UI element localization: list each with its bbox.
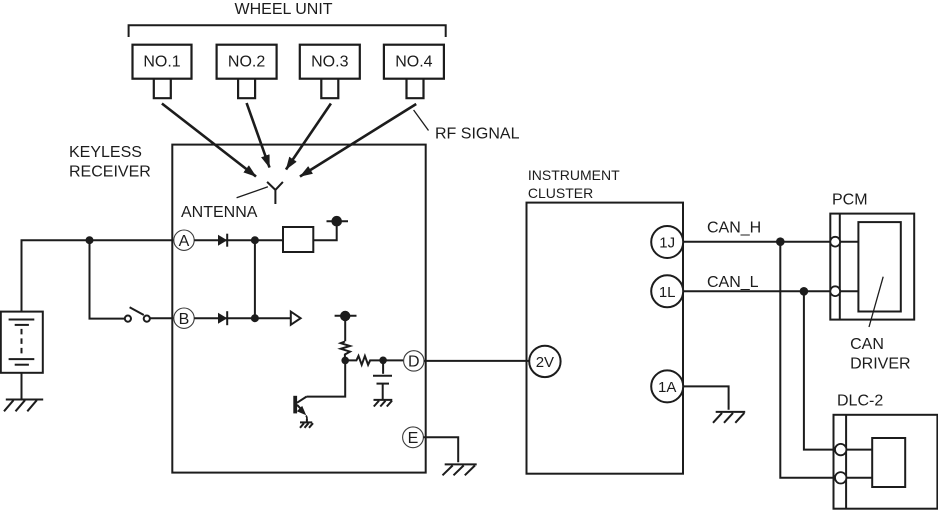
resistor R1 (vertical) xyxy=(341,342,350,361)
RF arrow from NO.1 to antenna xyxy=(162,104,256,177)
connector 1J xyxy=(651,226,683,258)
power symbol (battery feed) xyxy=(327,216,349,227)
wire component box to power xyxy=(313,226,336,241)
wire CAN_L 1L to PCM xyxy=(683,290,830,292)
wheel unit bracket xyxy=(129,25,446,37)
RF SIGNAL pointer line xyxy=(414,110,429,131)
PCM pin lead CAN_L xyxy=(840,290,858,292)
svg-text:NO.2: NO.2 xyxy=(228,54,265,71)
diode D1 xyxy=(218,234,227,247)
keyless receiver box xyxy=(172,145,425,473)
wire branch down to switch xyxy=(90,240,125,318)
junction dot at capacitor xyxy=(379,357,387,365)
node junction dot on battery wire xyxy=(86,236,94,244)
wire switch to node B xyxy=(150,317,174,319)
svg-text:WHEEL UNIT: WHEEL UNIT xyxy=(235,1,333,18)
junction dot CAN_H xyxy=(776,237,785,246)
PCM inner module (CAN driver) xyxy=(858,222,900,311)
svg-text:KEYLESS: KEYLESS xyxy=(69,144,142,161)
RF arrow from NO.4 to antenna xyxy=(300,104,416,177)
power symbol (internal supply) xyxy=(335,311,357,321)
switch xyxy=(125,307,150,321)
RF arrow from NO.2 to antenna xyxy=(247,103,270,168)
svg-text:RECEIVER: RECEIVER xyxy=(69,163,151,180)
node A xyxy=(174,230,194,250)
diode D2 xyxy=(218,311,227,325)
wheel unit NO.4 xyxy=(384,45,444,98)
svg-text:E: E xyxy=(408,430,419,447)
svg-text:B: B xyxy=(179,311,190,328)
DLC-2 pin lead upper xyxy=(846,449,872,451)
DLC-2 connector strip xyxy=(845,415,847,509)
svg-text:1J: 1J xyxy=(659,235,675,252)
svg-text:2V: 2V xyxy=(536,354,554,371)
junction dot CAN_L xyxy=(800,287,809,296)
wire link A row to B row xyxy=(254,240,256,318)
connector 1L xyxy=(651,275,683,307)
wire node A row xyxy=(194,239,283,241)
wire to transistor Q1 xyxy=(307,360,346,396)
wheel unit NO.3 xyxy=(300,45,360,98)
svg-text:CAN_H: CAN_H xyxy=(707,219,761,236)
PCM box xyxy=(830,214,914,320)
capacitor ground xyxy=(374,400,393,407)
PCM connector strip xyxy=(839,214,841,320)
PCM pin CAN_H xyxy=(830,237,840,247)
capacitor C1 xyxy=(373,360,392,400)
wire node E to ground xyxy=(423,437,458,462)
svg-text:1L: 1L xyxy=(659,284,676,301)
svg-text:CLUSTER: CLUSTER xyxy=(528,185,593,201)
node D xyxy=(404,351,424,371)
wire node B row xyxy=(194,317,291,319)
CAN driver pointer line xyxy=(869,277,883,327)
ground at 1A xyxy=(713,412,745,423)
wire battery to node A xyxy=(22,240,175,311)
svg-text:D: D xyxy=(408,354,420,371)
battery B+ xyxy=(1,312,43,373)
svg-text:PCM: PCM xyxy=(832,192,868,209)
battery ground xyxy=(4,373,43,412)
resistor R2 (horizontal) xyxy=(345,356,403,365)
wheel unit NO.2 xyxy=(217,45,277,98)
svg-text:CAN: CAN xyxy=(850,336,884,353)
wire power to resistor R1 xyxy=(344,321,346,341)
DLC-2 pin lead lower xyxy=(846,477,872,479)
connector 2V xyxy=(529,346,560,377)
ground at node E xyxy=(443,464,477,475)
wire CAN_H drop to DLC-2 xyxy=(780,242,835,478)
node B xyxy=(174,308,194,328)
antenna xyxy=(267,182,283,204)
buffer amplifier xyxy=(291,312,301,325)
svg-text:ANTENNA: ANTENNA xyxy=(181,204,258,221)
RF arrow from NO.3 to antenna xyxy=(286,104,331,170)
DLC-2 pin lower (CAN_H) xyxy=(835,472,846,483)
PCM pin CAN_L xyxy=(830,286,840,296)
svg-text:NO.1: NO.1 xyxy=(143,54,180,71)
svg-text:NO.4: NO.4 xyxy=(395,54,432,71)
node E xyxy=(403,427,424,448)
svg-text:A: A xyxy=(179,233,190,250)
junction dot B row xyxy=(251,314,259,322)
PCM pin lead CAN_H xyxy=(840,241,858,243)
wire CAN_L drop to DLC-2 xyxy=(804,291,835,449)
DLC-2 inner module xyxy=(872,438,905,487)
wire node D to instrument cluster 2V xyxy=(424,360,529,362)
svg-text:DRIVER: DRIVER xyxy=(850,355,910,372)
svg-text:DLC-2: DLC-2 xyxy=(837,393,883,410)
antenna pointer line xyxy=(237,187,268,198)
wire CAN_H 1J to PCM xyxy=(683,241,830,243)
svg-text:1A: 1A xyxy=(658,379,676,396)
transistor ground xyxy=(300,419,313,428)
svg-text:INSTRUMENT: INSTRUMENT xyxy=(528,167,620,183)
instrument cluster box xyxy=(527,203,684,474)
junction dot A row xyxy=(251,236,259,244)
junction dot below R1 xyxy=(341,357,349,365)
wheel unit NO.1 xyxy=(133,45,192,98)
transistor Q1 xyxy=(295,396,307,420)
svg-text:NO.3: NO.3 xyxy=(311,54,348,71)
component box (RF module) xyxy=(283,227,313,252)
wire 1A to ground xyxy=(683,386,728,409)
DLC-2 box xyxy=(834,415,938,509)
svg-text:RF SIGNAL: RF SIGNAL xyxy=(435,125,520,142)
svg-text:CAN_L: CAN_L xyxy=(707,274,759,291)
DLC-2 pin upper (CAN_L) xyxy=(835,444,846,455)
connector 1A xyxy=(651,370,683,402)
